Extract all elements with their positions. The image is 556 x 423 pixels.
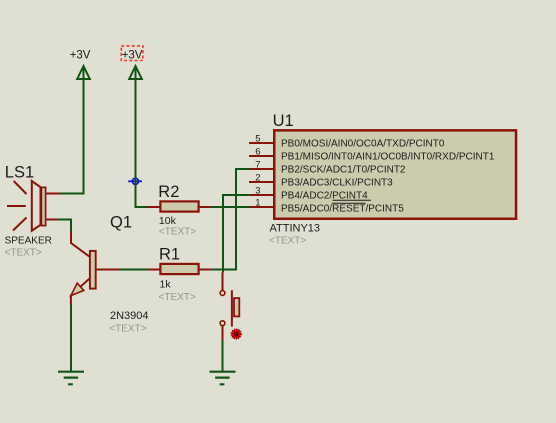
- svg-text:1k: 1k: [160, 279, 172, 291]
- svg-text:PB5/ADC0/RESET/PCINT5: PB5/ADC0/RESET/PCINT5: [281, 203, 404, 214]
- svg-text:+3V: +3V: [122, 49, 143, 61]
- svg-text:<TEXT>: <TEXT>: [5, 247, 42, 258]
- svg-text:U1: U1: [273, 112, 294, 130]
- svg-text:6: 6: [255, 146, 260, 157]
- svg-text:SPEAKER: SPEAKER: [5, 235, 52, 246]
- svg-text:10k: 10k: [159, 215, 177, 227]
- svg-text:<TEXT>: <TEXT>: [269, 235, 306, 246]
- svg-text:3: 3: [255, 185, 260, 196]
- svg-text:R2: R2: [158, 183, 179, 201]
- svg-text:2: 2: [255, 172, 260, 183]
- svg-text:2N3904: 2N3904: [110, 310, 149, 322]
- svg-text:PB1/MISO/INT0/AIN1/OC0B/INT0/R: PB1/MISO/INT0/AIN1/OC0B/INT0/RXD/PCINT1: [281, 152, 495, 163]
- svg-text:PB0/MOSI/AIN0/OC0A/TXD/PCINT0: PB0/MOSI/AIN0/OC0A/TXD/PCINT0: [281, 139, 445, 150]
- svg-text:1: 1: [255, 197, 260, 208]
- svg-text:<TEXT>: <TEXT>: [109, 324, 146, 335]
- svg-text:ATTINY13: ATTINY13: [270, 222, 321, 234]
- svg-text:PB3/ADC3/CLKI/PCINT3: PB3/ADC3/CLKI/PCINT3: [281, 178, 393, 189]
- svg-text:<TEXT>: <TEXT>: [159, 226, 196, 237]
- svg-text:7: 7: [255, 159, 260, 170]
- svg-text:5: 5: [255, 133, 260, 144]
- svg-text:Q1: Q1: [110, 213, 132, 231]
- svg-text:R1: R1: [159, 246, 180, 264]
- svg-text:LS1: LS1: [5, 163, 34, 181]
- svg-text:PB2/SCK/ADC1/T0/PCINT2: PB2/SCK/ADC1/T0/PCINT2: [281, 165, 406, 176]
- svg-text:<TEXT>: <TEXT>: [159, 292, 196, 303]
- svg-text:+3V: +3V: [70, 49, 91, 61]
